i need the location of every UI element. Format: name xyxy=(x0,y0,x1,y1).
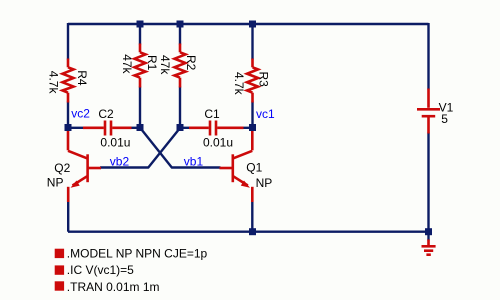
svg-text:0.01u: 0.01u xyxy=(203,135,233,149)
node junction R1/C2 xyxy=(137,124,144,131)
svg-text:vb1: vb1 xyxy=(184,154,204,168)
directive marker 3 xyxy=(55,281,64,290)
svg-text:5: 5 xyxy=(441,112,448,126)
wire C2 left stub xyxy=(68,127,84,129)
wire R3 top stub xyxy=(251,24,253,60)
svg-text:Q1: Q1 xyxy=(246,161,262,175)
wire R2 bottom to node xyxy=(179,87,181,128)
ground xyxy=(422,240,436,255)
node junction R1 top xyxy=(137,21,144,28)
wire left rail top (to R4) xyxy=(67,23,69,60)
svg-text:.MODEL NP NPN CJE=1p: .MODEL NP NPN CJE=1p xyxy=(67,246,208,260)
svg-text:NP: NP xyxy=(256,176,273,190)
directive marker 1 xyxy=(55,249,64,258)
wire cross-couple diagonal node1 to vb1 xyxy=(141,128,221,167)
wire C1 left stub xyxy=(180,127,190,129)
node junction vc2 xyxy=(65,124,72,131)
svg-text:R4: R4 xyxy=(75,70,89,86)
svg-text:vb2: vb2 xyxy=(110,154,130,168)
svg-text:C2: C2 xyxy=(98,107,114,121)
svg-text:.TRAN 0.01m 1m: .TRAN 0.01m 1m xyxy=(67,280,160,294)
capacitor C1 xyxy=(189,121,244,136)
transistor Q1 xyxy=(220,126,253,202)
svg-text:NP: NP xyxy=(47,176,64,190)
svg-text:0.01u: 0.01u xyxy=(100,135,130,149)
wire C2 right stub xyxy=(131,127,141,129)
node junction R2/C1 xyxy=(177,124,184,131)
wire R2 top stub xyxy=(179,24,181,45)
svg-text:4.7k: 4.7k xyxy=(232,72,246,96)
directive marker 2 xyxy=(55,265,64,274)
wire top rail xyxy=(68,23,429,25)
svg-text:Q2: Q2 xyxy=(54,161,70,175)
node junction R3 top xyxy=(249,21,256,28)
node junction Q1 emitter bottom xyxy=(249,228,256,235)
resistor R2 xyxy=(175,44,186,88)
node junction R2 top xyxy=(177,21,184,28)
wire R4 bottom to vc2 node xyxy=(67,102,69,128)
svg-text:vc1: vc1 xyxy=(256,107,275,121)
voltage source V1 xyxy=(417,89,440,134)
svg-text:R2: R2 xyxy=(184,55,198,71)
wire C1 right stub xyxy=(243,127,253,129)
wire Q1 emitter down to bottom rail xyxy=(251,201,253,232)
wire R1 bottom to node xyxy=(139,87,141,128)
svg-text:R3: R3 xyxy=(256,72,270,88)
svg-text:vc2: vc2 xyxy=(71,106,90,120)
svg-text:C1: C1 xyxy=(204,107,220,121)
wire R1 top stub xyxy=(139,24,141,45)
resistor R1 xyxy=(135,44,146,88)
wire V1 bottom to ground node xyxy=(427,133,429,232)
resistor R3 xyxy=(247,59,258,103)
wire R3 bottom to vc1 node xyxy=(251,102,253,128)
wire ground stub xyxy=(427,232,429,241)
wire cross-couple diagonal node2 to vb2 xyxy=(100,128,180,167)
wire bottom rail xyxy=(68,230,429,232)
capacitor C2 xyxy=(83,121,132,136)
transistor Q2 xyxy=(68,126,101,202)
wire right rail top (to V1) xyxy=(427,23,429,90)
svg-text:4.7k: 4.7k xyxy=(46,71,60,95)
svg-text:47k: 47k xyxy=(158,55,172,75)
node junction ground xyxy=(425,228,432,235)
svg-text:.IC V(vc1)=5: .IC V(vc1)=5 xyxy=(67,263,134,277)
svg-text:R1: R1 xyxy=(145,55,159,71)
resistor R4 xyxy=(63,59,74,103)
node junction vc1 xyxy=(249,124,256,131)
svg-text:47k: 47k xyxy=(120,54,134,74)
wire Q2 emitter down to bottom rail xyxy=(67,201,69,232)
